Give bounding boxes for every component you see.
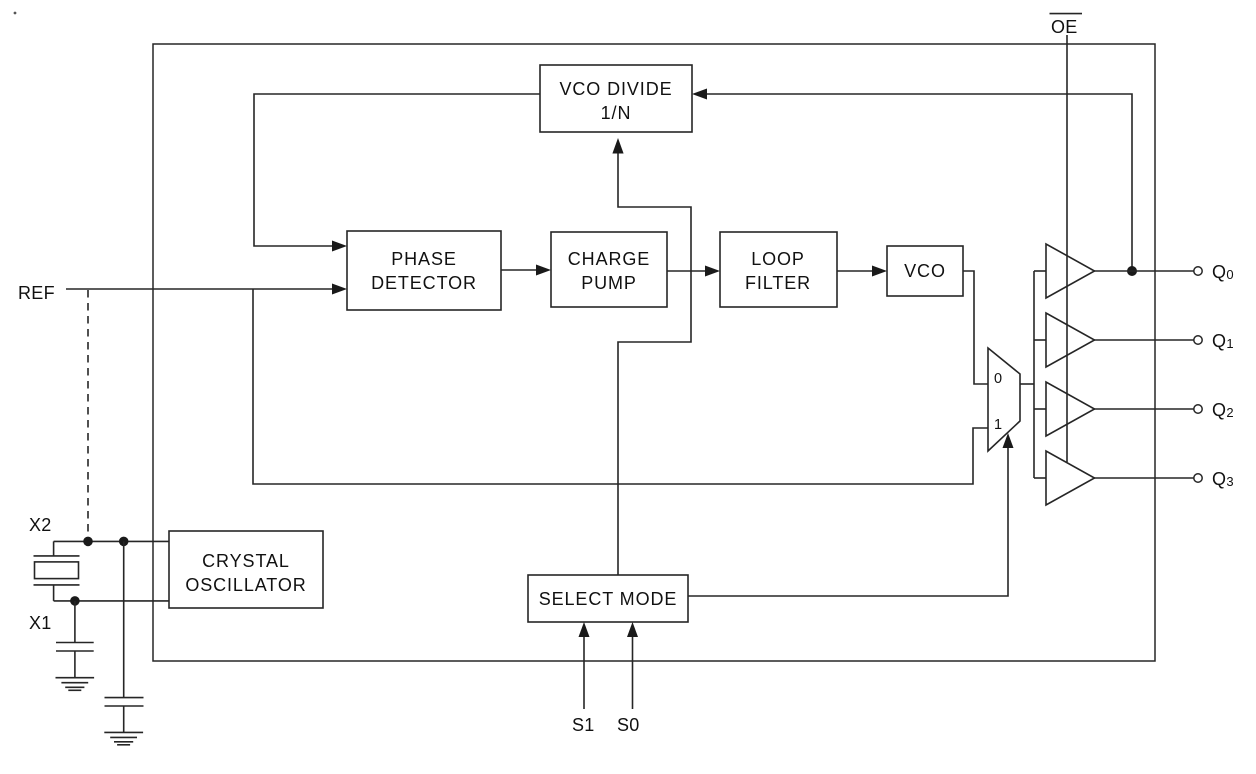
wire feedback VCO DIVIDE output to phase detector upper input [254, 94, 540, 246]
svg-text:X2: X2 [29, 515, 52, 535]
arrowhead into phase detector upper input [332, 241, 347, 252]
svg-text:X1: X1 [29, 613, 52, 633]
svg-text:CRYSTAL: CRYSTAL [202, 551, 290, 571]
multiplexer MUX [988, 348, 1020, 451]
wire feedback from Q0 node to VCO DIVIDE right input [705, 94, 1132, 271]
svg-text:0: 0 [994, 371, 1002, 387]
pad circle Q2 [1194, 405, 1202, 413]
block VCO DIVIDE 1/N (U-divider) [540, 65, 692, 132]
pad circle Q3 [1194, 474, 1202, 482]
block SELECT MODE [528, 575, 688, 622]
svg-text:LOOP: LOOP [751, 249, 805, 269]
arrowhead into loop filter [705, 266, 720, 277]
svg-text:SELECT MODE: SELECT MODE [539, 589, 678, 609]
junction dot X2/dashed [83, 537, 93, 547]
wire S1 input arrow [583, 635, 585, 709]
wire buffer 4 to pad Q3 [1095, 477, 1194, 479]
wire VCO output to mux input 0 [963, 271, 988, 384]
wire buffer 2 to pad Q1 [1095, 339, 1194, 341]
wire X2 node to crystal oscillator [54, 540, 169, 542]
svg-text:PHASE: PHASE [391, 249, 457, 269]
arrowhead into mux select (pointing up) [1003, 433, 1014, 448]
svg-text:Q3: Q3 [1212, 469, 1234, 489]
junction dot X2/C2 [119, 537, 129, 547]
wire REF branch down to mux input 1 [253, 289, 988, 484]
junction dot node Q0 [1127, 266, 1137, 276]
svg-text:Q2: Q2 [1212, 400, 1234, 420]
wire loop filter to VCO [837, 270, 874, 272]
svg-text:DETECTOR: DETECTOR [371, 273, 477, 293]
wire stub to buffer 1 [1034, 270, 1046, 272]
svg-text:S1: S1 [572, 715, 595, 735]
pad circle Q1 [1194, 336, 1202, 344]
svg-text:FILTER: FILTER [745, 273, 811, 293]
svg-text:VCO DIVIDE: VCO DIVIDE [559, 79, 672, 99]
wire buffer 1 to pad Q0 [1095, 270, 1194, 272]
block PHASE DETECTOR [347, 231, 501, 310]
svg-text:Q0: Q0 [1212, 262, 1234, 282]
wire OE enable line [1066, 35, 1068, 462]
page speck [14, 12, 17, 15]
wire REF to phase detector input [66, 288, 334, 290]
block LOOP FILTER [720, 232, 837, 307]
svg-text:PUMP: PUMP [581, 273, 637, 293]
crystal Y1 [34, 541, 80, 601]
wire mux output to buffer bus [1020, 383, 1034, 385]
arrowhead S1 into SELECT MODE [579, 622, 590, 637]
output buffer 1 (Q0) [1046, 244, 1095, 298]
output buffer 2 (Q1) [1046, 313, 1095, 367]
block CRYSTAL OSCILLATOR [169, 531, 323, 608]
svg-text:1/N: 1/N [601, 103, 632, 123]
arrowhead S0 into SELECT MODE [627, 622, 638, 637]
output buffer 3 (Q2) [1046, 382, 1095, 436]
outer chip boundary [153, 44, 1155, 661]
wire phase detector to charge pump [501, 269, 538, 271]
arrowhead into VCO [872, 266, 887, 277]
arrowhead into VCO DIVIDE bottom [612, 138, 623, 154]
svg-text:Q1: Q1 [1212, 331, 1234, 351]
capacitor C1 [56, 601, 94, 678]
arrowhead into VCO DIVIDE right edge [692, 89, 707, 100]
junction dot X1/C1 [70, 596, 80, 606]
svg-text:OE: OE [1051, 17, 1078, 37]
svg-text:REF: REF [18, 283, 55, 303]
wire stub to buffer 2 [1034, 339, 1046, 341]
svg-text:CHARGE: CHARGE [568, 249, 650, 269]
wire buffer input bus [1033, 271, 1035, 478]
block CHARGE PUMP [551, 232, 667, 307]
wire stub to buffer 3 [1034, 408, 1046, 410]
svg-text:OSCILLATOR: OSCILLATOR [185, 575, 306, 595]
wire SELECT MODE to mux select [688, 446, 1008, 596]
output buffer 4 (Q3) [1046, 451, 1095, 505]
arrowhead into charge pump [536, 265, 551, 276]
ground GND2 [104, 732, 143, 744]
block VCO [887, 246, 963, 296]
arrowhead into phase detector lower input [332, 284, 347, 295]
wire S0 input arrow [632, 635, 634, 709]
svg-text:VCO: VCO [904, 261, 946, 281]
wire SELECT MODE up to VCO DIVIDE (zig-zag) [618, 151, 691, 575]
pad circle Q0 [1194, 267, 1202, 275]
wire charge pump to loop filter [667, 270, 707, 272]
wire X1 node to crystal oscillator [54, 600, 169, 602]
wire buffer 3 to pad Q2 [1095, 408, 1194, 410]
svg-text:S0: S0 [617, 715, 640, 735]
svg-text:1: 1 [994, 417, 1002, 433]
wire REF dashed drop to X2 node [87, 290, 89, 541]
capacitor C2 [105, 541, 144, 732]
ground GND1 [56, 678, 95, 691]
wire stub to buffer 4 [1034, 477, 1046, 479]
